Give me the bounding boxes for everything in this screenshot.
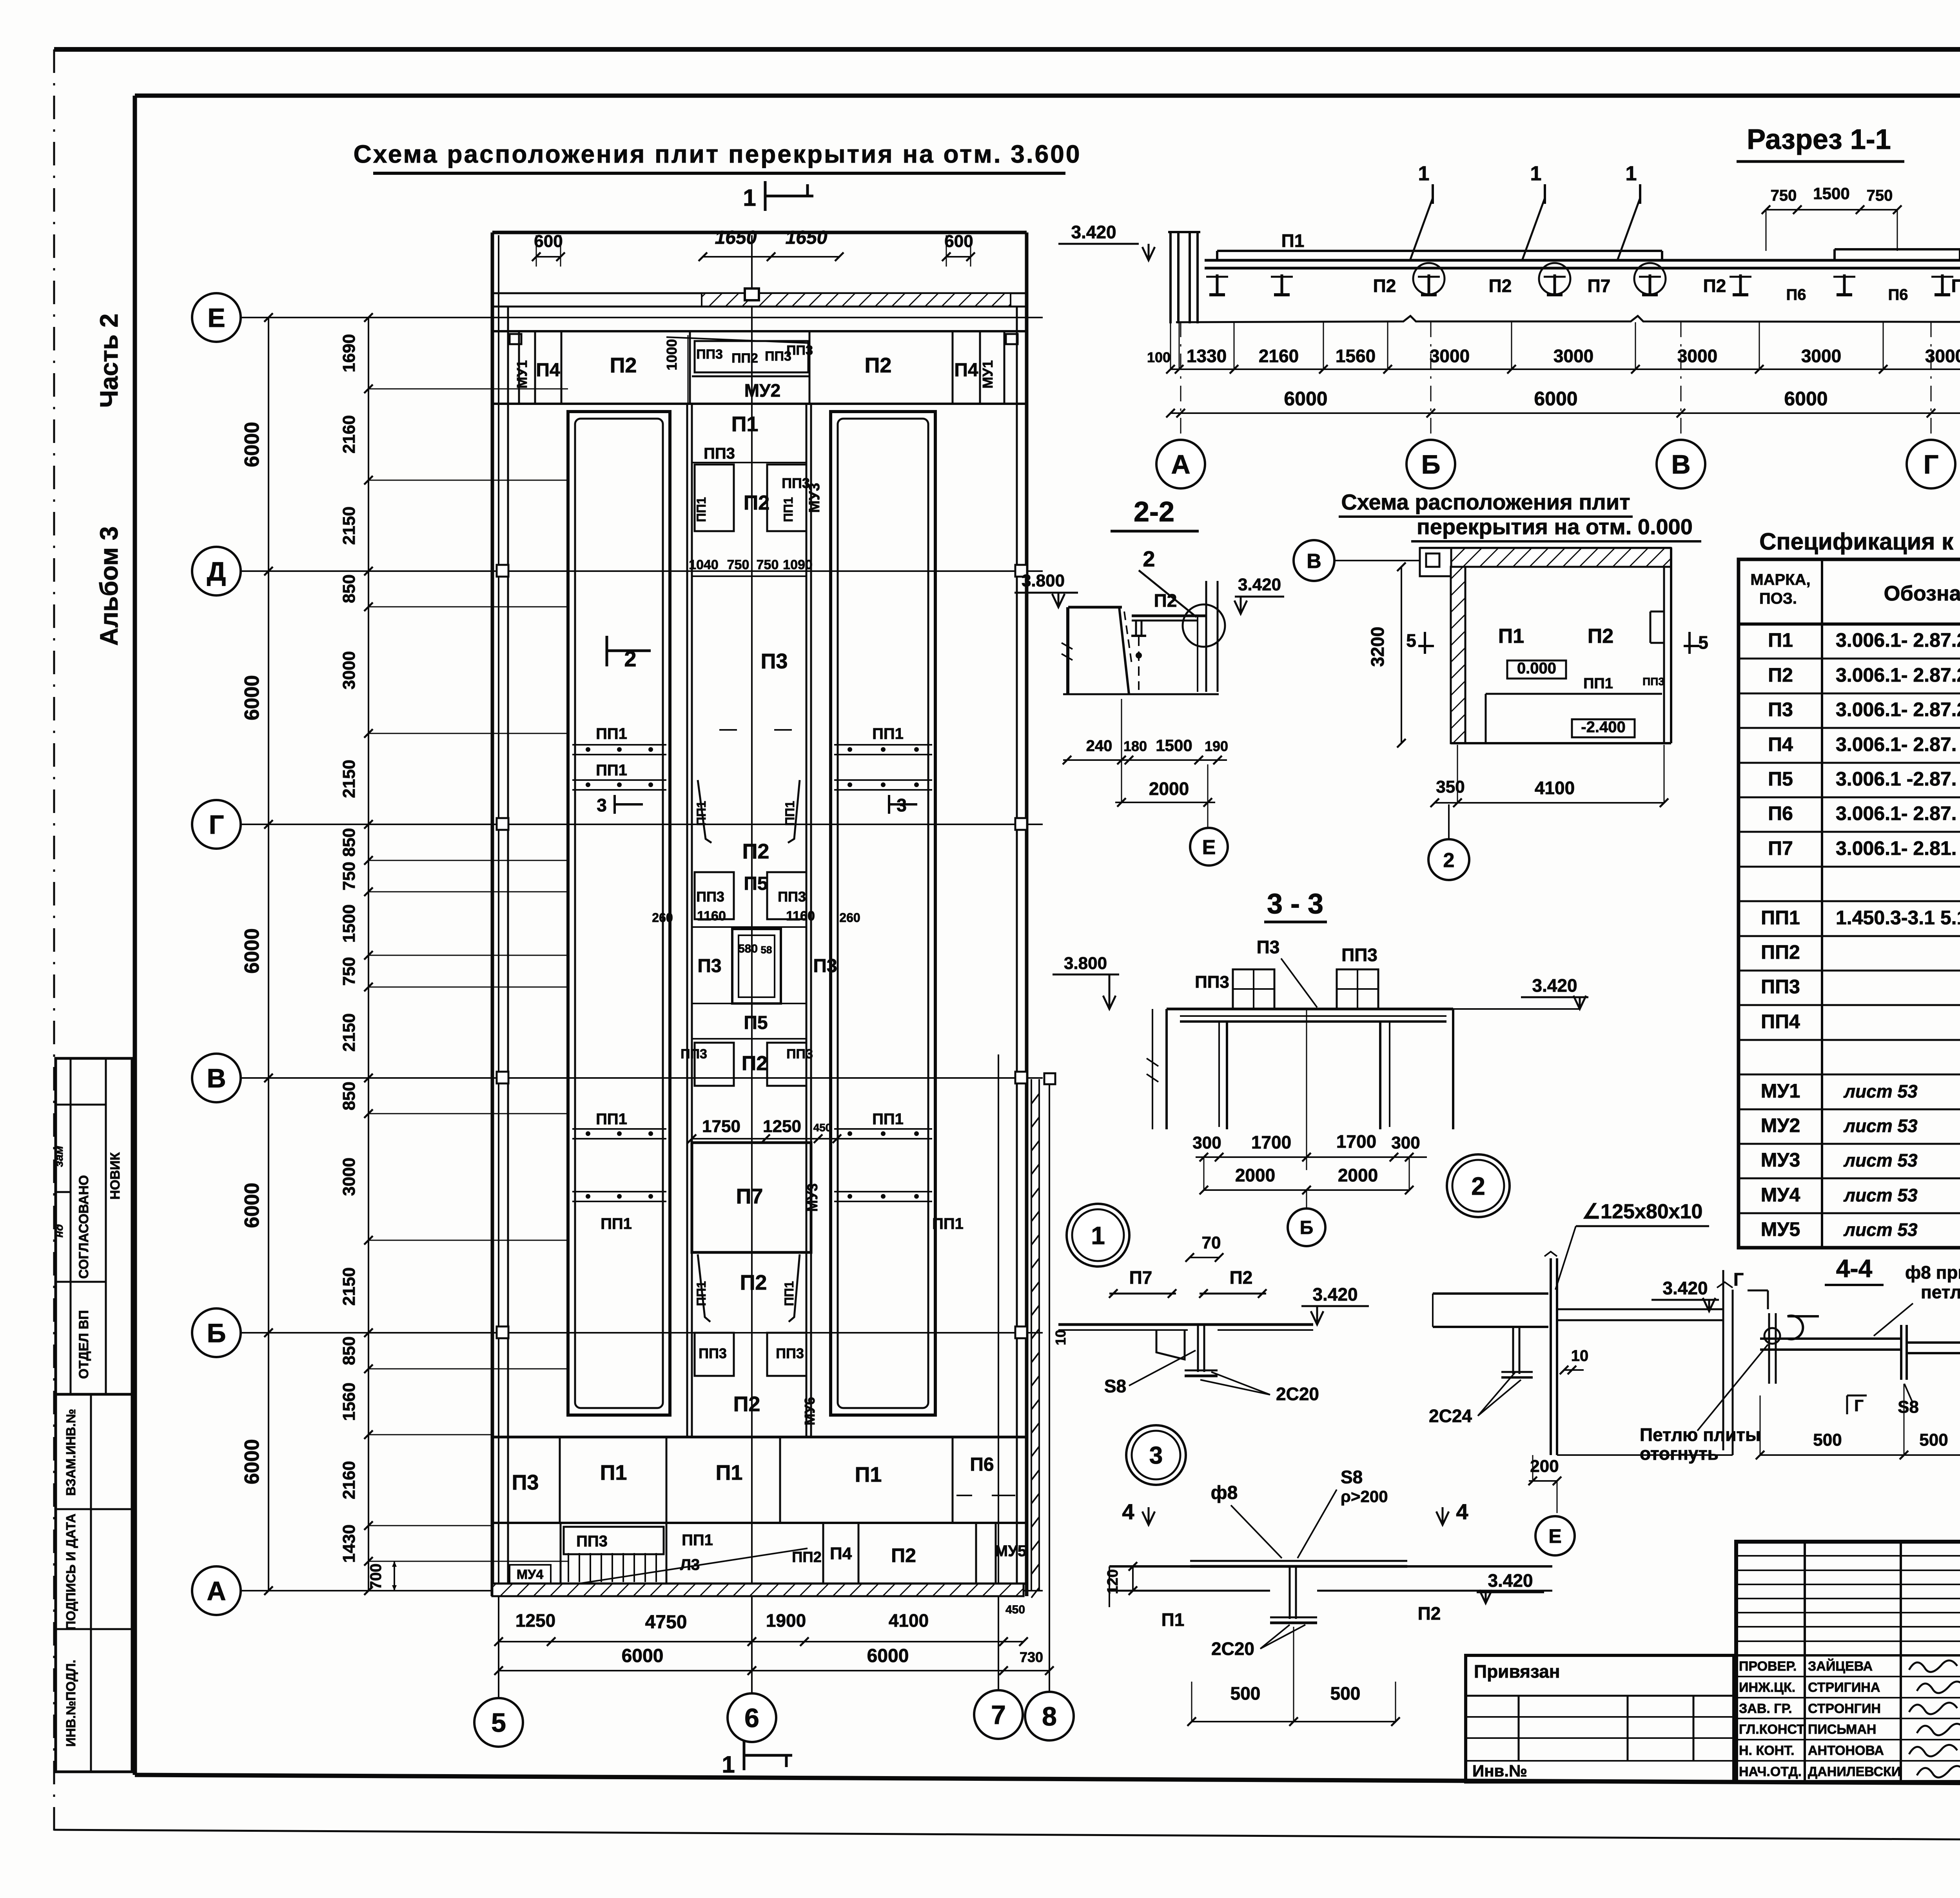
svg-text:ПП1: ПП1 — [782, 1281, 796, 1306]
svg-text:ПП3: ПП3 — [1642, 675, 1664, 688]
svg-text:ПП3: ПП3 — [704, 445, 735, 462]
svg-text:П3: П3 — [761, 650, 788, 673]
svg-text:8: 8 — [1042, 1702, 1057, 1731]
svg-text:В: В — [1671, 450, 1690, 479]
svg-text:58: 58 — [761, 944, 772, 956]
svg-text:1500: 1500 — [1813, 184, 1849, 203]
svg-text:6000: 6000 — [241, 928, 263, 974]
svg-text:П5: П5 — [744, 1013, 768, 1033]
svg-text:П3: П3 — [1768, 699, 1793, 720]
svg-text:3.420: 3.420 — [1312, 1284, 1357, 1305]
svg-text:2: 2 — [1143, 546, 1155, 571]
svg-text:ПОДПИСЬ И ДАТА: ПОДПИСЬ И ДАТА — [64, 1513, 78, 1630]
svg-text:П4: П4 — [830, 1544, 852, 1563]
svg-text:850: 850 — [339, 1336, 359, 1365]
svg-text:260: 260 — [839, 911, 860, 925]
svg-text:3000: 3000 — [1801, 346, 1841, 366]
svg-text:3.420: 3.420 — [1071, 222, 1116, 242]
svg-text:А: А — [207, 1576, 226, 1606]
svg-text:3000: 3000 — [1553, 346, 1593, 366]
svg-text:ПП3: ПП3 — [1195, 973, 1229, 992]
svg-text:Е: Е — [1548, 1525, 1561, 1547]
svg-text:П1: П1 — [1161, 1609, 1185, 1630]
svg-text:0.000: 0.000 — [1517, 660, 1556, 677]
svg-text:Б: Б — [1300, 1218, 1314, 1238]
svg-text:2150: 2150 — [339, 506, 359, 545]
svg-text:ПИСЬМАН: ПИСЬМАН — [1808, 1722, 1876, 1737]
svg-text:П2: П2 — [1768, 664, 1793, 686]
svg-text:П6: П6 — [1786, 286, 1806, 303]
svg-text:П2: П2 — [1418, 1603, 1441, 1624]
svg-text:ПП1: ПП1 — [1583, 675, 1613, 692]
svg-text:МУ1: МУ1 — [514, 360, 530, 388]
svg-text:П7: П7 — [1768, 837, 1793, 859]
svg-text:ПП3: ПП3 — [1341, 945, 1377, 965]
svg-text:2С20: 2С20 — [1276, 1384, 1319, 1404]
svg-text:6000: 6000 — [241, 675, 263, 720]
svg-text:2150: 2150 — [339, 1267, 359, 1306]
svg-text:Д: Д — [207, 557, 226, 586]
svg-text:1560: 1560 — [1336, 346, 1376, 366]
svg-text:ПП3: ПП3 — [696, 889, 724, 905]
svg-text:580: 580 — [738, 942, 758, 955]
svg-text:850: 850 — [339, 828, 359, 856]
svg-text:Е: Е — [1202, 836, 1216, 859]
svg-text:П7: П7 — [1129, 1267, 1152, 1288]
svg-text:ПП2: ПП2 — [792, 1549, 822, 1566]
svg-text:П1: П1 — [731, 412, 759, 436]
svg-text:120: 120 — [1105, 1569, 1121, 1594]
svg-text:зам: зам — [53, 1146, 65, 1167]
svg-text:ПП1: ПП1 — [596, 1110, 627, 1128]
svg-text:лист 53: лист 53 — [1843, 1219, 1918, 1240]
svg-text:1: 1 — [1530, 162, 1542, 185]
svg-text:ПП2: ПП2 — [1761, 941, 1800, 963]
svg-text:Г: Г — [209, 810, 224, 840]
svg-text:3 - 3: 3 - 3 — [1267, 888, 1323, 920]
svg-text:МУ5: МУ5 — [995, 1542, 1026, 1560]
svg-text:ф8: ф8 — [1211, 1482, 1238, 1503]
svg-text:500: 500 — [1919, 1430, 1948, 1450]
svg-text:ПП1: ПП1 — [682, 1531, 713, 1549]
svg-text:Инв.№: Инв.№ — [1472, 1762, 1527, 1780]
svg-text:1.450.3-3.1 5.1.0.1.0-08: 1.450.3-3.1 5.1.0.1.0-08 — [1836, 907, 1960, 929]
svg-text:ПП1: ПП1 — [601, 1215, 632, 1232]
svg-text:ПП1: ПП1 — [932, 1215, 964, 1232]
svg-text:6000: 6000 — [867, 1646, 909, 1666]
svg-text:6000: 6000 — [622, 1646, 664, 1666]
svg-text:Б: Б — [1421, 450, 1441, 479]
svg-text:4: 4 — [1456, 1499, 1468, 1524]
svg-text:3.006.1- 2.81. 2-47: 3.006.1- 2.81. 2-47 — [1836, 837, 1960, 859]
svg-text:5: 5 — [491, 1708, 506, 1738]
svg-text:1330: 1330 — [1187, 346, 1227, 366]
svg-text:3.006.1- 2.87.2-32: 3.006.1- 2.87.2-32 — [1836, 699, 1960, 720]
svg-text:450: 450 — [1005, 1603, 1025, 1616]
svg-text:3: 3 — [597, 795, 607, 815]
svg-text:3.006.1 -2.87. 2-8: 3.006.1 -2.87. 2-8 — [1836, 768, 1960, 790]
svg-text:4-4: 4-4 — [1836, 1254, 1873, 1283]
svg-text:Схема расположения плит перекр: Схема расположения плит перекрытия на от… — [354, 140, 1082, 168]
svg-text:ПП1: ПП1 — [596, 725, 627, 742]
svg-text:П3: П3 — [697, 956, 721, 976]
svg-text:1430: 1430 — [339, 1524, 359, 1563]
svg-text:МУ4: МУ4 — [1761, 1184, 1800, 1206]
svg-text:П3: П3 — [813, 956, 837, 976]
svg-text:2: 2 — [1471, 1172, 1485, 1200]
svg-text:6000: 6000 — [241, 1183, 263, 1228]
svg-text:МУ3: МУ3 — [804, 1183, 820, 1212]
svg-text:3.420: 3.420 — [1488, 1570, 1533, 1591]
svg-text:70: 70 — [1202, 1233, 1221, 1252]
svg-text:750: 750 — [339, 957, 359, 985]
svg-text:10: 10 — [1571, 1347, 1589, 1365]
svg-text:ПП3: ПП3 — [699, 1345, 727, 1361]
svg-text:7: 7 — [991, 1700, 1006, 1730]
svg-text:П4: П4 — [1768, 733, 1793, 755]
svg-text:3.800: 3.800 — [1064, 954, 1107, 973]
svg-text:П2: П2 — [610, 354, 637, 377]
svg-text:1: 1 — [1418, 162, 1430, 185]
svg-text:ПП1: ПП1 — [781, 497, 795, 522]
svg-text:МУ1: МУ1 — [1761, 1080, 1800, 1102]
svg-text:ПОЗ.: ПОЗ. — [1759, 590, 1797, 607]
svg-text:Г: Г — [1854, 1396, 1864, 1415]
svg-text:1700: 1700 — [1251, 1132, 1291, 1152]
svg-text:450: 450 — [813, 1121, 832, 1134]
svg-text:Схема расположения плит: Схема расположения плит — [1341, 490, 1630, 514]
svg-text:2160: 2160 — [339, 415, 359, 454]
svg-text:3200: 3200 — [1367, 627, 1388, 667]
svg-text:П2: П2 — [733, 1392, 760, 1416]
svg-text:850: 850 — [339, 574, 359, 603]
svg-text:3: 3 — [1149, 1442, 1163, 1469]
svg-text:3000: 3000 — [339, 651, 359, 690]
svg-text:ПП1: ПП1 — [694, 801, 708, 826]
svg-text:2С24: 2С24 — [1429, 1406, 1472, 1426]
svg-text:ф8 приварить к: ф8 приварить к — [1905, 1262, 1960, 1283]
svg-text:МУ2: МУ2 — [744, 380, 781, 401]
svg-text:П1: П1 — [1498, 625, 1524, 648]
svg-text:АНТОНОВА: АНТОНОВА — [1808, 1743, 1884, 1758]
svg-text:П2: П2 — [1373, 276, 1396, 296]
svg-text:Альбом 3: Альбом 3 — [95, 526, 123, 646]
svg-text:300: 300 — [1192, 1133, 1221, 1152]
svg-text:1700: 1700 — [1336, 1131, 1376, 1152]
svg-text:ПП1: ПП1 — [872, 1110, 904, 1128]
svg-text:6000: 6000 — [1784, 388, 1828, 410]
svg-text:500: 500 — [1330, 1683, 1361, 1704]
svg-text:П1: П1 — [1768, 629, 1793, 651]
svg-text:700: 700 — [367, 1564, 385, 1590]
svg-text:П2: П2 — [1703, 276, 1726, 296]
svg-text:240: 240 — [1086, 737, 1112, 755]
svg-text:2000: 2000 — [1235, 1165, 1275, 1185]
svg-text:ЗАВ. ГР.: ЗАВ. ГР. — [1739, 1701, 1792, 1716]
svg-text:лист 53: лист 53 — [1843, 1150, 1918, 1170]
svg-text:П6: П6 — [970, 1454, 994, 1475]
svg-text:петле плиты: петле плиты — [1921, 1282, 1960, 1302]
svg-text:ПП1: ПП1 — [872, 725, 904, 742]
svg-text:ПП3: ПП3 — [782, 475, 810, 491]
svg-text:6: 6 — [744, 1703, 759, 1733]
svg-text:3.006.1- 2.87.2- 41: 3.006.1- 2.87.2- 41 — [1836, 629, 1960, 651]
svg-text:1690: 1690 — [339, 334, 359, 372]
svg-text:600: 600 — [944, 232, 973, 251]
svg-text:ПРОВЕР.: ПРОВЕР. — [1739, 1659, 1797, 1674]
svg-text:МУ1: МУ1 — [980, 360, 996, 388]
svg-text:2000: 2000 — [1338, 1165, 1378, 1185]
svg-text:1750: 1750 — [702, 1117, 740, 1136]
svg-text:ПП3: ПП3 — [681, 1047, 707, 1062]
svg-text:ПП3: ПП3 — [696, 347, 723, 362]
svg-text:730: 730 — [1020, 1649, 1043, 1665]
svg-text:Разрез 1-1: Разрез 1-1 — [1747, 124, 1891, 155]
svg-text:Обозначение: Обозначение — [1884, 582, 1960, 605]
svg-text:500: 500 — [1813, 1430, 1842, 1450]
svg-text:Часть 2: Часть 2 — [95, 314, 123, 408]
svg-text:2: 2 — [1443, 849, 1455, 872]
svg-text:S8: S8 — [1341, 1467, 1363, 1487]
svg-text:ПП3: ПП3 — [786, 1047, 813, 1062]
svg-text:ИНЖ.ЦК.: ИНЖ.ЦК. — [1739, 1680, 1795, 1695]
svg-text:П2: П2 — [1951, 276, 1960, 296]
svg-text:260: 260 — [652, 911, 673, 925]
svg-text:850: 850 — [339, 1081, 359, 1110]
svg-text:3000: 3000 — [1925, 346, 1960, 366]
svg-text:750: 750 — [727, 557, 750, 572]
svg-text:1040: 1040 — [689, 557, 719, 572]
svg-text:∠125x80x10: ∠125x80x10 — [1583, 1200, 1703, 1223]
svg-text:П2: П2 — [891, 1544, 916, 1566]
svg-text:4100: 4100 — [889, 1610, 929, 1631]
svg-text:П6: П6 — [1888, 286, 1908, 303]
svg-text:500: 500 — [1230, 1683, 1261, 1704]
svg-text:2С20: 2С20 — [1211, 1639, 1254, 1659]
svg-text:ОТДЕЛ ВП: ОТДЕЛ ВП — [76, 1310, 91, 1379]
svg-text:300: 300 — [1391, 1133, 1420, 1152]
svg-text:1500: 1500 — [1156, 736, 1192, 755]
svg-text:МУ4: МУ4 — [517, 1567, 543, 1582]
svg-text:МАРКА,: МАРКА, — [1750, 571, 1810, 588]
svg-text:ПП1: ПП1 — [1761, 907, 1800, 929]
svg-text:600: 600 — [534, 232, 563, 251]
svg-text:П2: П2 — [744, 492, 769, 514]
svg-text:Н. КОНТ.: Н. КОНТ. — [1739, 1743, 1795, 1758]
svg-text:3.420: 3.420 — [1238, 575, 1281, 594]
svg-text:3000: 3000 — [339, 1158, 359, 1196]
svg-text:-2.400: -2.400 — [1581, 719, 1625, 736]
svg-text:П5: П5 — [744, 873, 768, 894]
svg-text:ПП3: ПП3 — [778, 889, 806, 905]
svg-text:5: 5 — [1698, 632, 1708, 653]
svg-text:2160: 2160 — [339, 1461, 359, 1499]
svg-text:3.420: 3.420 — [1532, 975, 1577, 996]
svg-text:1500: 1500 — [339, 904, 359, 943]
svg-text:П1: П1 — [716, 1461, 743, 1484]
svg-text:МУ3: МУ3 — [1761, 1149, 1800, 1171]
svg-text:1: 1 — [722, 1751, 735, 1778]
svg-text:ПП2: ПП2 — [731, 351, 758, 366]
svg-text:МУ6: МУ6 — [802, 1397, 818, 1425]
svg-text:3000: 3000 — [1677, 346, 1717, 366]
svg-text:П2: П2 — [1230, 1267, 1253, 1288]
svg-text:ЗАЙЦЕВА: ЗАЙЦЕВА — [1808, 1658, 1873, 1674]
svg-text:4100: 4100 — [1535, 778, 1575, 798]
svg-text:П3: П3 — [1257, 937, 1280, 957]
svg-text:отогнуть: отогнуть — [1640, 1443, 1719, 1464]
svg-text:1250: 1250 — [515, 1610, 555, 1631]
svg-text:6000: 6000 — [241, 422, 263, 467]
svg-text:ПП1: ПП1 — [783, 801, 797, 826]
svg-text:П6: П6 — [1768, 802, 1793, 824]
svg-text:П2: П2 — [740, 1271, 767, 1294]
svg-text:лист 53: лист 53 — [1843, 1185, 1918, 1205]
svg-text:П1: П1 — [855, 1463, 882, 1486]
svg-text:1650: 1650 — [715, 227, 757, 248]
svg-text:СОГЛАСОВАНО: СОГЛАСОВАНО — [76, 1175, 91, 1279]
svg-text:180: 180 — [1123, 738, 1147, 754]
svg-text:S8: S8 — [1104, 1376, 1126, 1396]
svg-text:ПП3: ПП3 — [786, 343, 813, 358]
svg-text:Спецификация к схеме расположе: Спецификация к схеме расположения плит п… — [1759, 528, 1960, 555]
svg-text:ПП1: ПП1 — [694, 497, 708, 522]
svg-text:В: В — [1307, 550, 1321, 573]
svg-text:П4: П4 — [536, 360, 560, 381]
svg-text:750: 750 — [1867, 187, 1893, 204]
svg-text:3000: 3000 — [1430, 346, 1470, 366]
svg-text:А: А — [1171, 450, 1190, 479]
svg-text:П2: П2 — [742, 840, 769, 863]
svg-text:СТРОНГИН: СТРОНГИН — [1808, 1701, 1881, 1716]
svg-text:3.800: 3.800 — [1022, 571, 1065, 590]
svg-text:П2: П2 — [1489, 276, 1512, 296]
svg-text:П2: П2 — [1588, 625, 1613, 648]
svg-text:100: 100 — [1147, 349, 1171, 365]
svg-text:5: 5 — [1406, 630, 1416, 651]
svg-text:ПП3: ПП3 — [1761, 976, 1800, 998]
svg-text:ПП3: ПП3 — [576, 1533, 608, 1550]
svg-text:Г: Г — [1733, 1269, 1744, 1290]
svg-text:2150: 2150 — [339, 1013, 359, 1052]
svg-text:ВЗАМ.ИНВ.№: ВЗАМ.ИНВ.№ — [64, 1409, 78, 1496]
svg-text:2160: 2160 — [1259, 346, 1299, 366]
svg-text:ИНВ.№ПОДЛ.: ИНВ.№ПОДЛ. — [64, 1660, 78, 1747]
svg-text:10: 10 — [1053, 1330, 1069, 1345]
svg-text:750: 750 — [339, 862, 359, 890]
svg-text:1: 1 — [743, 185, 756, 211]
svg-text:П2: П2 — [1154, 590, 1177, 611]
svg-text:Г: Г — [1924, 450, 1939, 479]
svg-text:П1: П1 — [600, 1461, 627, 1484]
svg-text:лист 53: лист 53 — [1843, 1081, 1918, 1101]
svg-text:2150: 2150 — [339, 760, 359, 798]
svg-text:П5: П5 — [1768, 768, 1793, 790]
svg-text:НАЧ.ОТД.: НАЧ.ОТД. — [1739, 1764, 1802, 1779]
svg-text:4750: 4750 — [645, 1612, 687, 1633]
svg-text:СТРИГИНА: СТРИГИНА — [1808, 1680, 1880, 1695]
svg-text:2-2: 2-2 — [1134, 496, 1174, 528]
svg-text:Привязан: Привязан — [1474, 1661, 1560, 1682]
svg-text:1090: 1090 — [783, 557, 813, 572]
svg-text:1: 1 — [1091, 1221, 1105, 1250]
svg-text:ГЛ.КОНСТ: ГЛ.КОНСТ — [1739, 1722, 1805, 1737]
svg-text:1900: 1900 — [766, 1610, 806, 1631]
svg-text:6000: 6000 — [1284, 388, 1327, 410]
svg-text:3.006.1- 2.87.2-35: 3.006.1- 2.87.2-35 — [1836, 664, 1960, 686]
svg-text:П1: П1 — [1281, 230, 1305, 251]
svg-text:ПП1: ПП1 — [694, 1281, 708, 1306]
svg-text:МУ5: МУ5 — [1761, 1218, 1800, 1240]
svg-text:нд: нд — [53, 1224, 65, 1238]
svg-text:ПП4: ПП4 — [1761, 1011, 1800, 1032]
svg-text:1: 1 — [1626, 162, 1637, 185]
svg-text:П7: П7 — [736, 1185, 763, 1208]
svg-text:1560: 1560 — [339, 1383, 359, 1421]
svg-text:перекрытия на отм. 0.000: перекрытия на отм. 0.000 — [1417, 514, 1693, 539]
svg-text:Е: Е — [207, 303, 225, 333]
svg-text:ПП3: ПП3 — [776, 1345, 804, 1361]
svg-text:1160: 1160 — [697, 909, 726, 924]
svg-text:П3: П3 — [512, 1471, 539, 1494]
svg-text:лист 53: лист 53 — [1843, 1116, 1918, 1136]
svg-text:Б: Б — [207, 1318, 226, 1348]
svg-text:200: 200 — [1530, 1457, 1559, 1476]
svg-text:ρ>200: ρ>200 — [1341, 1487, 1388, 1506]
svg-text:6000: 6000 — [241, 1439, 263, 1484]
svg-text:П2: П2 — [865, 354, 892, 377]
svg-text:П7: П7 — [1588, 276, 1611, 296]
svg-text:2000: 2000 — [1149, 778, 1189, 799]
svg-text:6000: 6000 — [1534, 388, 1577, 410]
svg-text:МУ2: МУ2 — [1761, 1114, 1800, 1136]
svg-text:190: 190 — [1205, 738, 1228, 754]
svg-text:3.006.1- 2.87. 2-17: 3.006.1- 2.87. 2-17 — [1836, 802, 1960, 824]
svg-text:3.006.1- 2.87. 2-11: 3.006.1- 2.87. 2-11 — [1836, 733, 1960, 755]
svg-text:1000: 1000 — [664, 339, 680, 370]
svg-text:П2: П2 — [742, 1052, 768, 1075]
svg-text:750: 750 — [1771, 187, 1797, 204]
svg-text:1250: 1250 — [763, 1117, 801, 1136]
svg-text:В: В — [207, 1063, 226, 1093]
svg-text:350: 350 — [1436, 777, 1465, 797]
svg-text:П4: П4 — [954, 360, 978, 381]
svg-text:ПП1: ПП1 — [596, 762, 627, 779]
svg-text:НОВИК: НОВИК — [108, 1152, 123, 1199]
svg-text:750: 750 — [757, 557, 779, 572]
svg-text:S8: S8 — [1898, 1397, 1919, 1417]
svg-text:4: 4 — [1122, 1499, 1134, 1524]
svg-text:ДАНИЛЕВСКИ: ДАНИЛЕВСКИ — [1808, 1764, 1901, 1779]
svg-text:1650: 1650 — [786, 227, 828, 248]
svg-text:3.420: 3.420 — [1662, 1278, 1708, 1298]
svg-text:1160: 1160 — [786, 909, 815, 924]
